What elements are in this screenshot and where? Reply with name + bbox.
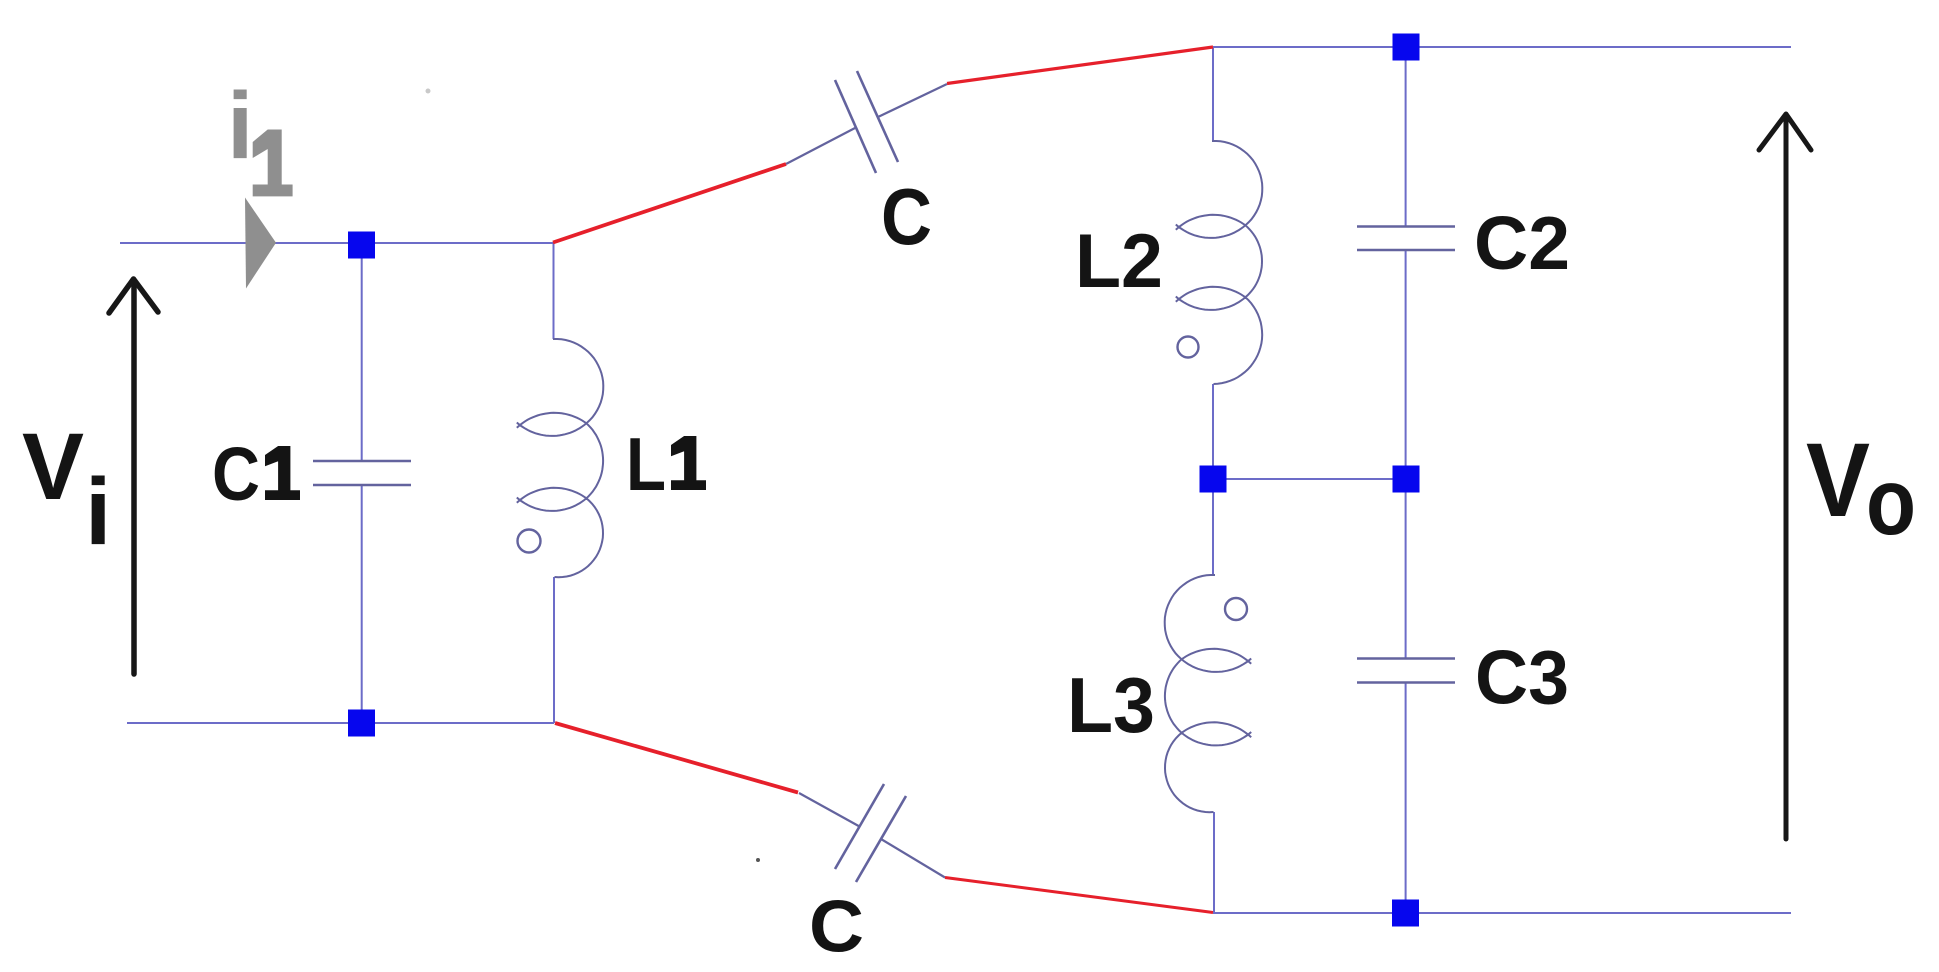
svg-text:i: i (227, 73, 253, 179)
svg-text:C: C (881, 172, 932, 261)
svg-text:i: i (85, 459, 111, 565)
svg-text:C: C (809, 887, 864, 968)
svg-text:o: o (1866, 449, 1916, 555)
svg-text:C3: C3 (1475, 636, 1569, 721)
svg-text:C: C (212, 432, 260, 516)
svg-text:L2: L2 (1075, 219, 1163, 304)
svg-text:L3: L3 (1067, 661, 1155, 749)
svg-text:C2: C2 (1474, 201, 1570, 285)
svg-text:V: V (22, 414, 84, 520)
svg-text:L: L (626, 422, 666, 506)
svg-text:V: V (1806, 422, 1870, 539)
